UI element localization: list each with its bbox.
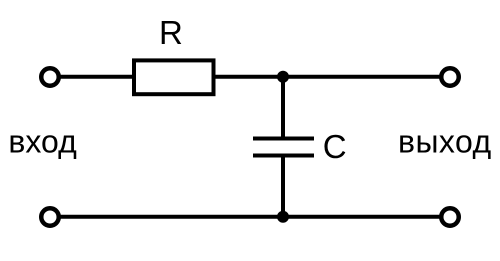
- input terminal bottom-left: [41, 208, 59, 226]
- output terminal top-right: [441, 68, 459, 86]
- capacitor C plates: [253, 137, 314, 141]
- input terminal top-left: [41, 68, 59, 86]
- svg-text:вход: вход: [8, 124, 77, 160]
- wire top-right: resistor to output terminal through node: [213, 75, 441, 79]
- wire top-left: input terminal to resistor: [59, 75, 134, 79]
- svg-text:C: C: [323, 128, 347, 165]
- svg-text:R: R: [159, 14, 183, 51]
- svg-text:выход: выход: [398, 124, 492, 160]
- resistor R: [134, 60, 214, 94]
- wire bottom: lower rail: [59, 215, 441, 219]
- output terminal bottom-right: [441, 208, 459, 226]
- wire capacitor upper lead: [281, 77, 285, 139]
- node junction bottom: [277, 211, 289, 223]
- wire capacitor lower lead: [281, 156, 285, 217]
- node junction top: [277, 71, 289, 83]
